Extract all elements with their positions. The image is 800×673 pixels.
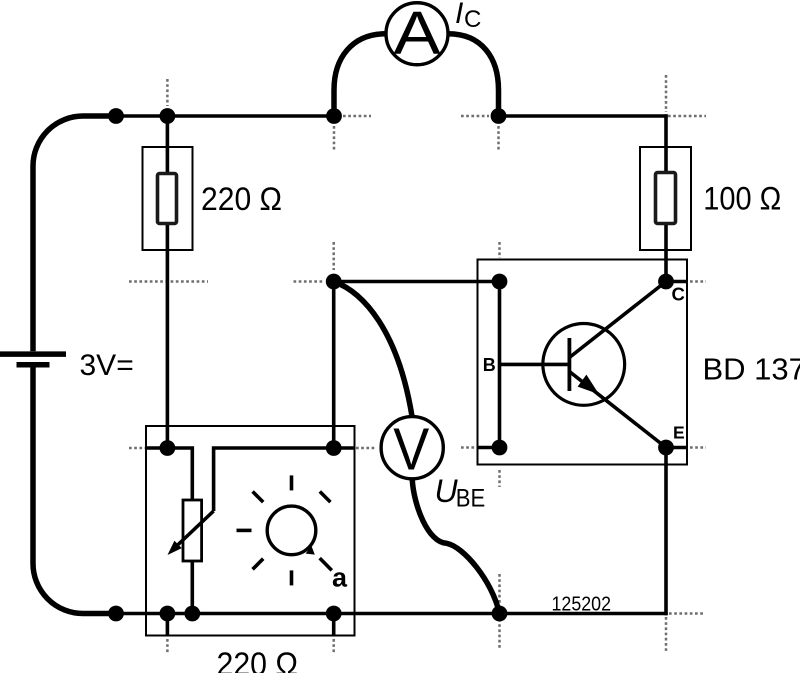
svg-text:3V=: 3V=: [80, 349, 134, 382]
svg-text:BE: BE: [456, 485, 486, 513]
svg-text:B: B: [483, 355, 496, 375]
svg-text:125202: 125202: [552, 594, 612, 616]
svg-text:BD 137: BD 137: [703, 352, 800, 387]
svg-text:220 Ω: 220 Ω: [217, 646, 299, 673]
svg-text:C: C: [464, 6, 481, 33]
svg-text:100 Ω: 100 Ω: [703, 181, 781, 217]
svg-text:220 Ω: 220 Ω: [201, 181, 282, 217]
svg-text:C: C: [672, 283, 685, 304]
svg-text:I: I: [455, 0, 463, 30]
svg-text:V: V: [393, 416, 430, 482]
svg-text:a: a: [332, 563, 348, 593]
svg-text:A: A: [394, 0, 441, 67]
svg-text:E: E: [673, 423, 685, 443]
